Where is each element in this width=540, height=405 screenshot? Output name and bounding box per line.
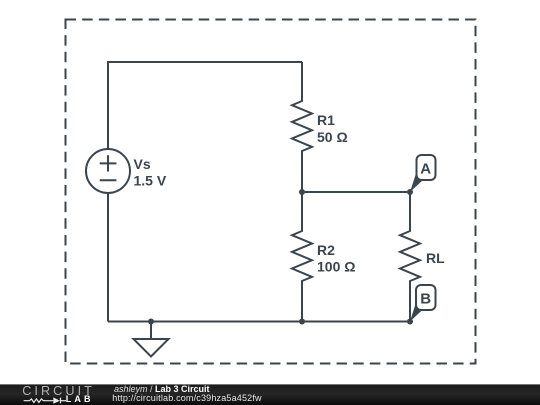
node B flag pointer wedge [410,305,422,322]
svg-text:http://circuitlab.com/c39hza5a: http://circuitlab.com/c39hza5a452fw [112,393,262,403]
resistor R2 (zigzag) with stubs [292,192,312,322]
wire: left branch bottom (Vs bottom to bottom rail) [107,193,109,322]
resistor RL (zigzag) with stubs [400,192,420,322]
junction dot at ground [148,319,154,325]
svg-text:RL: RL [426,250,445,266]
wire: middle rail from R1/R2 junction to node A [302,191,410,193]
resistor R1 (zigzag) with stubs [292,62,312,192]
svg-text:B: B [420,291,431,308]
svg-text:R1: R1 [317,112,335,128]
junction dot at R1/R2 node [299,189,305,195]
svg-text:100 Ω: 100 Ω [317,259,355,275]
junction dot node B [407,319,413,325]
junction dot at R2 bottom [299,319,305,325]
svg-text:50 Ω: 50 Ω [317,129,348,145]
svg-text:Vs: Vs [134,156,151,172]
ground symbol stem [150,322,152,340]
wire: left branch top (Vs top to top rail) [108,62,302,149]
voltage source minus sign [100,179,117,181]
CircuitLab logo resistor zigzag and diode [24,398,66,404]
svg-text:LAB: LAB [66,394,94,404]
voltage source Vs (1.5 V) circle body [86,149,130,193]
footer bar background [0,384,540,405]
svg-text:1.5 V: 1.5 V [134,172,167,188]
node A flag box [417,155,436,180]
schematic dashed border frame [66,20,476,364]
node A flag pointer wedge [410,175,422,192]
wire: bottom rail [108,321,410,323]
CircuitLab logo diode triangle [53,397,60,403]
junction dot node A [407,189,413,195]
node B flag box [416,285,436,310]
svg-text:A: A [420,161,431,178]
svg-text:R2: R2 [317,242,335,258]
voltage source plus sign [100,155,117,171]
ground symbol triangle [134,339,169,357]
